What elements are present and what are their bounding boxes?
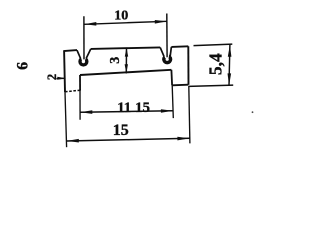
svg-text:15: 15 bbox=[113, 122, 129, 139]
dim 5,4 extension top bbox=[194, 44, 233, 46]
dim 15 right arrow bbox=[177, 137, 189, 141]
left keyhole notch bbox=[77, 49, 91, 67]
right wall bottom edge bbox=[172, 84, 188, 87]
dim 5,4 down arrow bbox=[228, 73, 232, 85]
dim 11 15 extension left (cavity wall extension) bbox=[79, 91, 81, 120]
dim 2 arrow bbox=[57, 77, 66, 80]
dim 11 15 dimension line bbox=[80, 111, 173, 113]
svg-text:6: 6 bbox=[14, 62, 31, 70]
dim 5,4 dimension line bbox=[228, 45, 231, 86]
profile left outer edge bbox=[63, 51, 66, 92]
dim 5,4 up arrow bbox=[228, 45, 232, 57]
profile top edge right segment bbox=[171, 45, 188, 48]
svg-text:2: 2 bbox=[45, 74, 59, 80]
dim 3 down arrow bbox=[125, 64, 128, 73]
svg-text:5,4: 5,4 bbox=[206, 53, 226, 75]
svg-text:11 15: 11 15 bbox=[117, 100, 150, 116]
dim 3 up arrow bbox=[125, 48, 128, 57]
cavity right wall bbox=[170, 70, 173, 86]
dim 11 15 left arrow bbox=[80, 110, 92, 114]
dim 15 extension left (left edge extension) bbox=[65, 92, 67, 147]
left wall bottom edge (dashed scan look) bbox=[65, 90, 80, 92]
dim 11 15 right arrow bbox=[161, 109, 173, 113]
svg-text:10: 10 bbox=[114, 8, 128, 23]
profile right outer edge bbox=[187, 46, 189, 84]
dim 5,4 extension bottom bbox=[189, 85, 233, 86]
right keyhole notch bbox=[160, 47, 172, 65]
scan speck bbox=[252, 111, 254, 113]
dim 10 dimension line bbox=[84, 21, 167, 24]
dim 3 dimension line bbox=[125, 48, 127, 74]
dim 10 extension line left bbox=[83, 16, 85, 59]
dim 10 extension line right bbox=[166, 14, 168, 58]
dim 15 left arrow bbox=[67, 139, 79, 143]
profile top edge middle segment bbox=[91, 47, 160, 49]
svg-text:3: 3 bbox=[108, 57, 123, 64]
cavity ceiling bbox=[80, 70, 171, 75]
dim 2 leader line bbox=[57, 77, 65, 79]
dim 15 dimension line bbox=[67, 138, 190, 141]
dim 10 right arrow bbox=[155, 20, 167, 24]
dim 15 extension right bbox=[189, 86, 190, 143]
profile top edge left segment bbox=[63, 50, 77, 51]
dim 11 15 extension right bbox=[172, 85, 173, 118]
cavity left wall bbox=[79, 75, 81, 91]
dim 10 left arrow bbox=[84, 22, 96, 26]
